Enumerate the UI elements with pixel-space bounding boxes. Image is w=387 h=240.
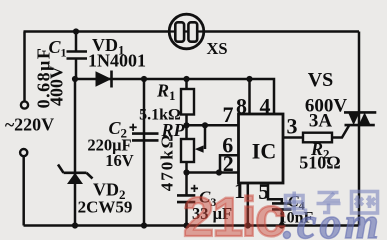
wire C1 bottom xyxy=(75,59,78,79)
wire RP bottom to C3 to ground xyxy=(185,162,188,195)
IC U1 box xyxy=(239,114,284,183)
wire left input bottom xyxy=(22,156,25,226)
junction node pin8 supply xyxy=(246,76,252,82)
potentiometer RP body xyxy=(181,139,194,162)
capacitor C1 xyxy=(67,52,88,59)
wire zener branch xyxy=(74,79,77,226)
wire pin8 xyxy=(248,79,251,114)
svg-text:8: 8 xyxy=(236,94,247,119)
junction node C2 top xyxy=(141,76,147,82)
input terminal bottom xyxy=(20,149,27,156)
svg-text:2CW59: 2CW59 xyxy=(78,198,133,217)
svg-text:470kΩ: 470kΩ xyxy=(158,133,177,192)
socket XS xyxy=(169,14,204,49)
capacitor C3 xyxy=(177,195,195,202)
junction node R1/RP pin7 xyxy=(183,122,189,128)
svg-text:XS: XS xyxy=(206,39,227,58)
junction node RP wiper tap xyxy=(202,122,208,128)
svg-text:.com: .com xyxy=(283,199,382,240)
wire C4 to ground xyxy=(281,210,284,226)
junction node R1 top xyxy=(183,76,189,82)
svg-text:4: 4 xyxy=(260,94,271,119)
wire pin5 to C4 xyxy=(268,183,282,203)
resistor R2 xyxy=(303,133,332,143)
wire pin2 xyxy=(187,171,239,174)
wire right vertical xyxy=(358,32,361,226)
svg-text:16V: 16V xyxy=(105,151,134,170)
wire C2 branch xyxy=(143,79,146,226)
svg-text:7: 7 xyxy=(223,102,234,127)
capacitor C4 xyxy=(272,203,292,209)
wire rectified rail y79 xyxy=(75,79,274,114)
svg-text:21ic: 21ic xyxy=(183,185,285,240)
triac VS xyxy=(344,112,376,125)
junction node pin6/pin2 tie xyxy=(216,169,222,175)
svg-text:1N4001: 1N4001 xyxy=(88,51,146,71)
wire pin7 xyxy=(187,124,239,127)
wire RP wiper xyxy=(204,125,207,149)
junction node VD2 ground xyxy=(72,222,78,228)
input terminal top xyxy=(21,101,28,108)
svg-text:2: 2 xyxy=(223,151,234,176)
junction node VD1 anode / C1 / VD2 xyxy=(72,76,78,82)
junction node C1 top rail xyxy=(73,28,79,34)
svg-text:VS: VS xyxy=(308,69,334,91)
zener diode VD2 xyxy=(58,165,93,185)
svg-text:400V: 400V xyxy=(47,66,67,106)
capacitor C2 xyxy=(132,134,159,141)
junction node C3 ground xyxy=(183,222,189,228)
wire R1 to RP xyxy=(185,115,188,140)
wire left input top xyxy=(23,32,26,102)
junction node RP bottom / pin2 xyxy=(183,169,189,175)
wire R1 top xyxy=(185,79,188,89)
svg-text:510Ω: 510Ω xyxy=(299,153,340,173)
resistor R1 xyxy=(181,89,194,115)
junction node C2 ground xyxy=(141,222,147,228)
wire pin3 to R2 xyxy=(283,136,303,139)
diode VD1 xyxy=(96,71,112,88)
wire C1 top xyxy=(75,32,78,52)
wire top rail xyxy=(24,30,360,33)
wire pin6 xyxy=(220,155,239,172)
watermark dianzi wang (blue CJK strokes) xyxy=(286,192,378,214)
wire bottom rail xyxy=(24,224,360,227)
wire pin1 to ground xyxy=(247,183,250,226)
C2 plus sign xyxy=(130,124,137,131)
C3 plus sign xyxy=(191,185,198,192)
wire R2 to gate xyxy=(332,126,349,138)
junction node pin1 ground xyxy=(245,222,251,228)
RP wiper arrowhead xyxy=(195,145,204,152)
svg-text:IC: IC xyxy=(252,139,276,164)
svg-text:~220V: ~220V xyxy=(5,115,54,135)
junction node C4 ground xyxy=(279,222,285,228)
svg-text:3: 3 xyxy=(287,114,298,139)
svg-text:3A: 3A xyxy=(309,111,333,132)
